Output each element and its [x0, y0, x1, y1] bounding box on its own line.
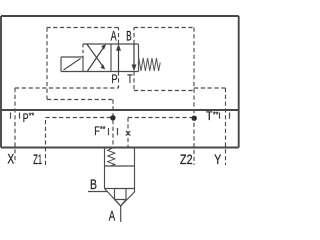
svg-text:**: **	[29, 112, 35, 121]
junction node Z2 (dot)	[192, 116, 197, 121]
wire Z2 vertical line x=194	[193, 28, 195, 166]
wire horizontal run y=88 from X line to P riser	[15, 87, 119, 89]
wire Z1 port line x=45.5	[45, 118, 47, 166]
svg-text:**: **	[213, 111, 219, 120]
cartridge valve spring	[108, 148, 115, 166]
svg-text:Z2: Z2	[180, 152, 193, 167]
junction node F (dot)	[110, 115, 115, 120]
svg-text:F: F	[94, 125, 100, 138]
svg-text:**: **	[100, 125, 106, 134]
plug symbol x on line to cartridge	[126, 131, 131, 136]
svg-text:B: B	[90, 177, 97, 192]
pilot valve crossed-arrows position (left square)	[87, 44, 106, 72]
wire top-right dashed run B to Z2 drop	[134, 27, 194, 29]
wire plugged line x=128 down to cartridge	[127, 118, 129, 148]
svg-text:A: A	[111, 29, 118, 44]
orifice bars at Y / T line	[220, 113, 230, 119]
pilot valve parallel-arrows position (right square): P to A up arrow	[116, 44, 120, 71]
wire horizontal run y=117.5 Z1 to F junction	[46, 117, 111, 119]
wire horizontal run y=90.5 T to Z2 line	[134, 90, 194, 92]
wire P riser below pilot valve	[118, 72, 120, 89]
solenoid actuator of pilot valve	[61, 57, 83, 72]
cartridge logic valve body	[105, 148, 135, 207]
svg-text:B: B	[126, 29, 131, 44]
wire B-port riser of pilot valve	[133, 28, 135, 45]
svg-text:Z1: Z1	[33, 152, 42, 167]
svg-text:P: P	[23, 111, 29, 125]
orifice bars at X / P line	[11, 113, 20, 119]
orifice bars at F line	[109, 128, 118, 135]
wire left vertical drop x=47	[46, 28, 48, 100]
svg-text:P: P	[111, 72, 117, 86]
wire B port line of cartridge	[88, 191, 107, 193]
svg-text:X: X	[7, 151, 14, 166]
svg-text:Y: Y	[214, 152, 221, 167]
wire Y port line x=225.5	[225, 88, 227, 165]
wire A-port riser of pilot valve	[118, 28, 120, 45]
wire F pilot line x=113 down to cartridge spring chamber	[112, 100, 114, 148]
svg-text:T: T	[206, 110, 213, 123]
pilot valve 4/2 body U1	[83, 44, 139, 72]
svg-text:T: T	[127, 72, 133, 86]
svg-text:A: A	[109, 208, 116, 223]
return spring of pilot valve	[139, 58, 160, 71]
wire top-left dashed run A to left drop	[47, 27, 119, 29]
wire horizontal run y=88 Z2 line to Y line	[194, 87, 226, 89]
housing frame	[1, 16, 239, 148]
wire X port line x=15	[14, 88, 16, 163]
wire horizontal run y=117.5 plugged line to Z2 junction	[128, 117, 192, 119]
pilot valve right square: B to T down arrow	[132, 44, 136, 71]
wire main P-T channel line	[1, 109, 239, 111]
wire T riser below pilot valve	[133, 72, 135, 91]
wire A port line of cartridge	[120, 206, 122, 222]
wire horizontal run y=99.5 to F line	[47, 99, 113, 101]
